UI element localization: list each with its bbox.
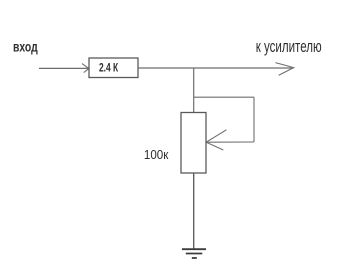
wiper arrowhead of potentiometer R2 [206, 130, 226, 150]
ground symbol [182, 249, 206, 258]
wire potentiometer to ground [193, 173, 195, 249]
potentiometer R2 body [181, 113, 206, 174]
node junction A / wire down to potentiometer [193, 68, 195, 113]
arrowhead into resistor R1 [82, 64, 89, 73]
svg-text:100к: 100к [144, 148, 169, 162]
wire feedback right segment [253, 97, 255, 142]
wire input segment [39, 67, 88, 69]
wire output segment [138, 67, 292, 69]
svg-text:вход: вход [13, 38, 38, 54]
wire feedback bottom segment [207, 141, 255, 143]
svg-text:2.4 К: 2.4 К [99, 61, 119, 75]
resistor R1 body [89, 58, 138, 78]
wire feedback top segment [194, 96, 254, 98]
arrowhead to amplifier [276, 63, 294, 76]
svg-text:к усилителю: к усилителю [256, 38, 322, 56]
